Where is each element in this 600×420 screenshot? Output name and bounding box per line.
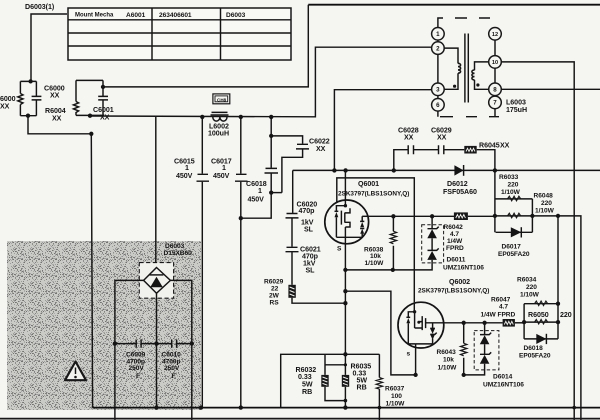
wire gate drive to R6034 network xyxy=(557,216,559,304)
svg-text:2W: 2W xyxy=(269,293,280,300)
shaded caution area xyxy=(7,241,201,410)
node: caps row left xyxy=(113,341,117,345)
svg-text:R6043: R6043 xyxy=(437,349,457,356)
svg-text:100uH: 100uH xyxy=(208,130,229,138)
bridge rectifier D6003 dashed box xyxy=(139,263,173,299)
svg-text:1/10W: 1/10W xyxy=(501,189,521,196)
svg-text:10: 10 xyxy=(492,60,498,66)
wire from D6003(1) to R6000/C6000 xyxy=(31,14,67,82)
node: D6014 top xyxy=(482,321,486,325)
capacitor C6029 xyxy=(414,127,464,155)
svg-text:XX: XX xyxy=(100,114,110,122)
node: bus sense xyxy=(343,405,347,409)
resistor R6047 (block) xyxy=(481,296,525,326)
zener D6014 xyxy=(464,323,525,389)
resistor R6042 (block) xyxy=(444,212,496,251)
wire drain line left drop xyxy=(292,170,294,213)
node: bus start xyxy=(88,114,92,118)
diode D6012 xyxy=(443,165,477,196)
node: bus C6015 xyxy=(199,405,203,409)
node: R6038 top xyxy=(391,214,395,218)
node: R6035 bottom joint xyxy=(344,399,348,403)
svg-text:450V: 450V xyxy=(176,172,193,180)
wire main DC bus xyxy=(90,47,432,117)
svg-text:XX: XX xyxy=(0,103,10,111)
node: network right mid xyxy=(530,214,534,218)
svg-text:UMZ16NT106: UMZ16NT106 xyxy=(483,381,524,388)
svg-text:8: 8 xyxy=(493,87,497,94)
svg-text:250V: 250V xyxy=(164,365,180,372)
node: bus R6037 xyxy=(378,406,382,410)
svg-text:1: 1 xyxy=(222,164,226,172)
wire sense box xyxy=(281,354,380,407)
resistor R6033 xyxy=(499,174,521,201)
capacitor C6017 xyxy=(211,117,248,408)
transformer pin 6 xyxy=(432,99,445,112)
svg-text:s: s xyxy=(407,351,411,358)
svg-text:RB: RB xyxy=(357,383,367,391)
capacitor C6000 xyxy=(20,81,64,115)
svg-text:1/10W: 1/10W xyxy=(535,208,555,215)
node: D6003(1) tap xyxy=(28,79,32,83)
svg-text:450V: 450V xyxy=(248,196,265,204)
gate network R6034/R6050/D6018 frame xyxy=(524,304,558,339)
wire Q6002 gate line xyxy=(444,322,503,324)
svg-text:1/10W: 1/10W xyxy=(365,260,385,267)
connector CH8 xyxy=(213,94,230,104)
svg-text:XX: XX xyxy=(500,141,510,149)
warning triangle xyxy=(65,362,86,381)
svg-text:CH8: CH8 xyxy=(217,97,227,102)
svg-text:D6003(1): D6003(1) xyxy=(25,3,55,11)
label Q6002 xyxy=(418,278,489,295)
capacitor C6010 xyxy=(157,340,192,380)
svg-text:R6029: R6029 xyxy=(264,279,284,286)
diode D6018 xyxy=(519,334,551,360)
wire AC line 2 vertical xyxy=(91,134,93,408)
svg-text:10k: 10k xyxy=(443,357,454,364)
svg-text:1: 1 xyxy=(258,187,262,195)
resistor R6004 xyxy=(45,80,79,122)
resistor R6029 (block) xyxy=(264,279,345,307)
transformer pin 3 xyxy=(432,83,445,96)
wire Q6001 gate loop xyxy=(337,178,415,302)
transformer pin 10 xyxy=(489,56,502,69)
svg-text:D6014: D6014 xyxy=(493,373,513,380)
wire bridge right to AC xyxy=(170,280,191,420)
svg-text:1/10W: 1/10W xyxy=(520,291,540,298)
transformer pin 7 xyxy=(489,96,502,109)
gate network R6033/R6048/D6017 frame xyxy=(495,170,533,232)
svg-text:R6034: R6034 xyxy=(517,276,537,283)
zener D6011 xyxy=(345,216,484,271)
svg-text:22: 22 xyxy=(271,286,279,293)
node: D6011 top xyxy=(430,214,434,218)
svg-text:250V: 250V xyxy=(129,365,145,372)
svg-text:Q6001: Q6001 xyxy=(358,180,379,188)
svg-text:220: 220 xyxy=(560,311,572,319)
node: L6002 right / C6017 tap xyxy=(239,115,243,119)
transformer core xyxy=(465,34,468,103)
MOSFET Q6001 xyxy=(325,170,369,354)
svg-text:D6017: D6017 xyxy=(502,243,522,250)
capacitor C6021 xyxy=(286,246,321,285)
svg-text:FPRD: FPRD xyxy=(446,245,464,252)
transformer secondary winding xyxy=(472,62,489,89)
svg-text:SL: SL xyxy=(306,266,316,274)
svg-text:D15XB60: D15XB60 xyxy=(164,250,193,257)
wire top edge xyxy=(308,4,600,6)
wire bridge left to AC xyxy=(115,280,144,420)
node: bus bridge xyxy=(154,405,158,409)
svg-text:220: 220 xyxy=(526,284,537,291)
wire pin3 to drain bus xyxy=(334,90,431,171)
node: pin3 drain junction xyxy=(332,168,336,172)
bridge rectifier D6003 diamond xyxy=(144,268,171,294)
label L6003 175uH xyxy=(506,99,527,115)
node: source to Q6002 branch xyxy=(343,289,347,293)
svg-text:D6003: D6003 xyxy=(226,12,246,19)
svg-text:R6047: R6047 xyxy=(491,296,511,303)
label D6003 D15XB60 xyxy=(164,243,193,257)
node: C6001 to AC line 1 xyxy=(101,85,105,89)
svg-text:2: 2 xyxy=(436,45,440,52)
svg-text:175uH: 175uH xyxy=(506,106,527,114)
svg-text:220: 220 xyxy=(541,200,552,207)
node: C6018/C6022 bottom join xyxy=(269,190,282,194)
svg-text:220: 220 xyxy=(508,182,519,189)
node: D6011/R6038 return xyxy=(343,268,395,272)
resistor R6045 (block) xyxy=(464,141,509,170)
transformer primary winding xyxy=(444,48,460,89)
node: L6002 left / C6015 tap xyxy=(200,115,204,119)
wire pin8 out xyxy=(501,88,600,90)
svg-text:2SK3797(LBS1SONY,Q): 2SK3797(LBS1SONY,Q) xyxy=(338,190,409,197)
label Q6001 xyxy=(338,180,409,197)
svg-text:1/10W: 1/10W xyxy=(438,364,458,371)
resistor R6000 xyxy=(0,81,23,115)
svg-text:C6018: C6018 xyxy=(246,180,267,188)
inductor L6002 xyxy=(208,112,229,137)
node: caps row centre xyxy=(154,341,158,345)
wire source link to Q6002 source xyxy=(345,291,415,375)
svg-text:UMZ16NT106: UMZ16NT106 xyxy=(443,264,484,271)
svg-text:XX: XX xyxy=(50,92,60,100)
svg-text:100: 100 xyxy=(391,393,402,400)
resistor R6048 xyxy=(496,193,555,218)
transformer shield dashes top xyxy=(438,18,490,28)
svg-text:1: 1 xyxy=(185,164,189,172)
wire pin1-2 stub xyxy=(438,40,495,98)
svg-text:SL: SL xyxy=(304,226,314,234)
svg-text:3: 3 xyxy=(436,87,440,94)
svg-text:4.7: 4.7 xyxy=(499,303,508,310)
transformer pin 8 xyxy=(489,83,502,96)
node: caps row right xyxy=(190,341,194,345)
mount table xyxy=(68,8,291,60)
wire to AC line 2 xyxy=(28,116,91,134)
wire bottom edge xyxy=(0,418,600,420)
svg-text:Mount Mecha: Mount Mecha xyxy=(75,13,114,19)
node: network left mid xyxy=(493,214,497,218)
node: Q6001 drain tap xyxy=(343,168,347,172)
svg-text:R6033: R6033 xyxy=(499,174,519,181)
node: bus pin10 line xyxy=(572,406,576,410)
wire AC line 1 to top xyxy=(103,5,308,87)
svg-text:EP05FA20: EP05FA20 xyxy=(498,251,530,258)
svg-text:1/4W FPRD: 1/4W FPRD xyxy=(481,311,516,318)
resistor R6050 xyxy=(524,311,572,324)
node: R6043 top xyxy=(462,321,466,325)
svg-text:450V: 450V xyxy=(213,172,230,180)
node: Q6001 source at sense xyxy=(343,352,347,356)
node: R6000/C6000 bottom xyxy=(26,114,30,118)
wire Q6001 gate line xyxy=(369,215,454,217)
svg-text:6: 6 xyxy=(436,102,440,109)
wire C6018 return to C6017 line xyxy=(241,193,271,219)
label D6003(1) xyxy=(25,3,55,11)
svg-text:470p: 470p xyxy=(299,207,316,215)
svg-text:R6037: R6037 xyxy=(385,385,405,392)
transformer shield dashes bottom xyxy=(438,109,499,117)
capacitor C6015 xyxy=(174,117,209,408)
capacitor C6018 xyxy=(246,117,278,204)
svg-text:263406601: 263406601 xyxy=(159,12,192,19)
svg-text:R6042: R6042 xyxy=(444,224,464,231)
wire bottom return bus xyxy=(93,407,600,409)
svg-text:Q6002: Q6002 xyxy=(449,278,470,286)
capacitor C6001 xyxy=(76,80,114,121)
svg-text:R6050: R6050 xyxy=(528,311,549,319)
svg-text:1: 1 xyxy=(436,31,440,38)
svg-text:RB: RB xyxy=(302,388,312,396)
svg-text:XX: XX xyxy=(404,134,414,142)
node: Q6002 source xyxy=(413,373,417,377)
node: drive tap xyxy=(556,214,560,218)
svg-text:XX: XX xyxy=(437,134,447,142)
node: R6050 net right xyxy=(556,320,560,324)
node: snubber left xyxy=(392,168,396,172)
svg-text:12: 12 xyxy=(492,32,498,38)
transformer pin 12 xyxy=(489,28,502,41)
svg-text:XX: XX xyxy=(316,145,326,153)
node: R6050 net left xyxy=(522,320,526,324)
node: AC line 2 joint xyxy=(89,132,93,136)
svg-text:1/4W: 1/4W xyxy=(447,238,463,245)
svg-text:FSF05A60: FSF05A60 xyxy=(443,188,477,196)
svg-text:D6012: D6012 xyxy=(447,180,468,188)
node: C6022 top tap xyxy=(269,134,273,138)
svg-text:R6048: R6048 xyxy=(534,193,554,200)
node: R6034 net right top xyxy=(556,302,560,306)
capacitor C6028 xyxy=(394,127,419,171)
resistor R6037 xyxy=(376,354,405,420)
transformer pin 2 xyxy=(432,42,445,55)
resistor R6038 xyxy=(364,216,397,270)
svg-text:D6011: D6011 xyxy=(447,256,466,263)
svg-text:4.7: 4.7 xyxy=(450,231,459,238)
svg-text:EP05FA20: EP05FA20 xyxy=(519,352,551,359)
svg-text:RS: RS xyxy=(270,300,280,307)
wire bridge bottom xyxy=(156,293,158,407)
capacitor C6020 xyxy=(286,200,318,246)
node: bus C6017 xyxy=(239,405,243,409)
svg-text:S: S xyxy=(337,246,342,253)
resistor R6032 (block) xyxy=(296,354,346,400)
svg-text:7: 7 xyxy=(493,100,497,107)
capacitor C6009 xyxy=(115,340,156,380)
transformer pin 1 xyxy=(432,28,445,41)
MOSFET Q6002 xyxy=(398,302,444,375)
svg-text:R6045: R6045 xyxy=(479,141,500,149)
node: R6043 bottom xyxy=(462,373,466,377)
svg-text:D6018: D6018 xyxy=(524,345,544,352)
resistor R6043 xyxy=(437,323,467,375)
svg-text:2SK3797(LBS1SONY,Q): 2SK3797(LBS1SONY,Q) xyxy=(418,288,489,295)
svg-text:A6001: A6001 xyxy=(126,12,146,19)
node: snubber right xyxy=(493,168,497,172)
svg-text:F: F xyxy=(136,373,140,380)
diode D6017 xyxy=(498,227,530,258)
resistor R6035 (block) xyxy=(342,354,371,407)
svg-text:F: F xyxy=(172,373,176,380)
node: C6017 line at return xyxy=(239,216,243,220)
svg-text:1/10W: 1/10W xyxy=(386,400,406,407)
node: snubber return on source xyxy=(343,301,347,305)
wire bus to bridge top xyxy=(155,117,157,268)
wire drain line xyxy=(293,169,600,171)
capacitor C6022 xyxy=(271,136,330,193)
node: C6018 bus tap xyxy=(269,115,273,119)
svg-text:XX: XX xyxy=(52,115,62,123)
resistor R6034 xyxy=(517,276,548,305)
wire gate drive out xyxy=(532,216,581,420)
wire pin10 out xyxy=(501,62,574,420)
